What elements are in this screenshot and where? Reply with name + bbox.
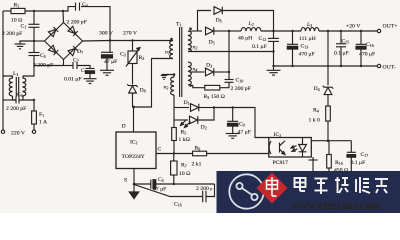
- zener diode D8: [129, 86, 137, 93]
- svg-text:www.elecfans.com: www.elecfans.com: [291, 200, 381, 212]
- capacitor C5: [33, 41, 35, 52]
- adjust arrows R5: [181, 120, 187, 126]
- svg-text:220 V: 220 V: [11, 131, 26, 137]
- svg-text:C5: C5: [158, 177, 164, 183]
- svg-text:2 200 pF: 2 200 pF: [67, 20, 87, 26]
- svg-text:n3: n3: [164, 85, 169, 91]
- svg-text:C5: C5: [40, 53, 46, 59]
- svg-text:0.1 μF: 0.1 μF: [334, 51, 349, 57]
- svg-text:n1: n1: [165, 50, 170, 56]
- diode D3 tap: [189, 71, 205, 73]
- svg-text:D6: D6: [216, 18, 222, 24]
- svg-text:2 200 p: 2 200 p: [196, 186, 212, 192]
- capacitor C13 electrolytic: [292, 31, 294, 44]
- capacitor C17: [350, 141, 352, 152]
- inductor L1 common-mode choke: [3, 76, 13, 78]
- svg-text:270 V: 270 V: [123, 31, 138, 37]
- svg-text:47 μF: 47 μF: [153, 187, 166, 193]
- svg-text:D3: D3: [206, 63, 212, 69]
- fuse F1: [32, 111, 37, 124]
- ground for C8: [84, 78, 97, 80]
- svg-text:IC1: IC1: [130, 140, 138, 146]
- capacitor C8: [86, 68, 95, 70]
- svg-text:T1: T1: [176, 22, 181, 28]
- svg-text:C12: C12: [259, 36, 267, 42]
- wire rectified rail: [229, 30, 241, 32]
- wire S diagonal: [134, 185, 202, 197]
- wire secondary top to D5: [188, 30, 202, 32]
- terminal 220V left: [1, 130, 4, 133]
- zener diode D4: [324, 88, 332, 95]
- resistor R5: [173, 120, 175, 128]
- capacitor C16 electrolytic: [360, 31, 362, 44]
- svg-text:OUT+: OUT+: [383, 24, 398, 30]
- capacitor C9 electrolytic: [232, 108, 234, 122]
- capacitor C7: [64, 65, 73, 67]
- svg-text:470 μF: 470 μF: [299, 52, 315, 58]
- ground for S pin: [133, 184, 135, 192]
- svg-text:OUT-: OUT-: [383, 65, 396, 71]
- bridge diode upper-right: [68, 26, 78, 36]
- svg-text:IC2: IC2: [274, 132, 282, 138]
- svg-text:10 Ω: 10 Ω: [11, 17, 22, 23]
- wire bridge bottom: [34, 60, 64, 66]
- capacitor C11 electrolytic: [134, 183, 151, 185]
- svg-text:C13: C13: [301, 44, 309, 50]
- terminal 220V right: [32, 130, 35, 133]
- wire top rail: [3, 10, 11, 12]
- resistor R4: [326, 106, 331, 121]
- IC2 PC817 box: [269, 138, 312, 158]
- svg-text:R5: R5: [181, 130, 187, 136]
- svg-text:+20 V: +20 V: [346, 24, 361, 30]
- ground for C1/C5 node: [20, 41, 34, 44]
- resistor R9: [193, 151, 207, 156]
- bridge diode upper-left: [48, 27, 58, 37]
- opto transistor: [269, 141, 271, 154]
- diode D5: [206, 27, 214, 35]
- svg-text:0.01 μF: 0.01 μF: [64, 77, 82, 83]
- capacitor C4 branch: [63, 7, 75, 11]
- ground for C9: [226, 133, 240, 135]
- svg-text:D4: D4: [314, 86, 320, 92]
- svg-text:L3: L3: [306, 22, 312, 28]
- svg-text:R3 150 Ω: R3 150 Ω: [204, 94, 225, 100]
- svg-text:L1: L1: [13, 71, 18, 77]
- svg-text:2 200 pF: 2 200 pF: [2, 31, 22, 37]
- wire snubber column: [228, 31, 230, 79]
- svg-text:2 200 pF: 2 200 pF: [6, 106, 26, 112]
- bridge rectifier diamond: [45, 23, 83, 60]
- wire n3 bottom to clamp diodes: [173, 95, 175, 120]
- transformer T1 core: [179, 27, 181, 97]
- svg-text:L2: L2: [248, 21, 254, 27]
- wire bridge left to C-node: [34, 40, 45, 42]
- svg-text:C: C: [158, 147, 162, 153]
- svg-text:47 μF: 47 μF: [104, 59, 117, 65]
- svg-text:C17: C17: [361, 152, 369, 158]
- capacitor C3 electrolytic: [109, 41, 111, 53]
- watermark red diamond logo: [257, 173, 288, 204]
- svg-text:D7: D7: [77, 49, 83, 55]
- svg-text:R10: R10: [335, 160, 343, 166]
- svg-text:C9: C9: [239, 122, 245, 128]
- svg-text:D8: D8: [140, 88, 146, 94]
- wire bias node: [214, 108, 269, 138]
- svg-text:R7: R7: [181, 163, 187, 169]
- svg-text:111 μH: 111 μH: [299, 36, 316, 42]
- capacitor C15: [340, 31, 342, 44]
- svg-text:PC817: PC817: [273, 160, 289, 166]
- terminal OUT+: [377, 29, 380, 32]
- svg-text:S: S: [124, 178, 127, 184]
- svg-text:C4: C4: [82, 2, 88, 8]
- secondary winding n2: [188, 31, 191, 52]
- svg-text:D5: D5: [209, 40, 215, 46]
- resistor R1: [11, 8, 25, 13]
- IC1 TOP224Y box: [116, 132, 156, 169]
- ground for n3: [163, 74, 165, 77]
- svg-text:C16: C16: [366, 42, 374, 48]
- watermark circle logo: [229, 174, 263, 208]
- wire drain node to IC1: [133, 107, 135, 132]
- svg-text:n2: n2: [193, 45, 198, 51]
- svg-text:C3: C3: [120, 52, 126, 58]
- svg-text:TOP224Y: TOP224Y: [122, 154, 145, 160]
- wire feedback column: [327, 31, 329, 85]
- diode D6: [214, 7, 222, 15]
- watermark band: [217, 171, 400, 213]
- opto LED: [302, 138, 304, 145]
- bias winding n3: [171, 77, 174, 95]
- wire D6 branch: [198, 11, 212, 32]
- svg-text:R4: R4: [313, 108, 319, 114]
- wire return to ground: [273, 66, 275, 70]
- terminal OUT-: [377, 64, 380, 67]
- svg-text:R9: R9: [195, 146, 201, 152]
- svg-text:R2: R2: [139, 55, 145, 61]
- svg-text:47 μF: 47 μF: [238, 130, 251, 136]
- svg-text:2 k1: 2 k1: [192, 162, 202, 168]
- svg-text:C15: C15: [342, 39, 350, 45]
- resistor R7: [173, 154, 175, 162]
- svg-text:C8: C8: [81, 68, 87, 74]
- secondary winding n4: [188, 62, 191, 85]
- wire OUT- rail: [274, 65, 378, 67]
- svg-text:C1: C1: [21, 24, 27, 30]
- clamp diode D1: [174, 107, 189, 109]
- svg-text:C16: C16: [174, 202, 182, 208]
- svg-text:0.1 μF: 0.1 μF: [252, 44, 267, 50]
- capacitor C10: [225, 79, 234, 81]
- wire center tap return: [188, 51, 274, 53]
- bridge diode lower-left: [48, 45, 58, 55]
- svg-text:2 200 pF: 2 200 pF: [33, 63, 53, 69]
- wire C pin row: [156, 153, 193, 155]
- watermark chinese title: [295, 177, 389, 194]
- resistor R3: [205, 85, 220, 90]
- wire DC plus rail: [83, 40, 174, 43]
- svg-text:D2: D2: [201, 125, 207, 131]
- wire LED cathode: [312, 157, 314, 160]
- capacitor C16b: [202, 191, 204, 203]
- svg-text:D: D: [122, 124, 126, 130]
- inductor L2: [241, 28, 261, 31]
- svg-text:1 k 0: 1 k 0: [309, 118, 321, 124]
- capacitor C6: [3, 99, 16, 101]
- clamp diode D2: [174, 119, 188, 121]
- svg-text:300 V: 300 V: [99, 31, 114, 37]
- resistor R10: [328, 141, 330, 155]
- ground for C3: [100, 69, 114, 71]
- wire bridge top feed: [62, 11, 65, 23]
- svg-text:1 kΩ: 1 kΩ: [179, 137, 190, 143]
- svg-text:2 200 pF: 2 200 pF: [231, 86, 251, 92]
- capacitor C1: [33, 11, 35, 24]
- capacitor C12: [273, 31, 275, 38]
- svg-text:10 Ω: 10 Ω: [179, 171, 190, 177]
- svg-text:1 A: 1 A: [39, 120, 48, 126]
- svg-text:C6: C6: [17, 92, 23, 98]
- svg-text:470 μF: 470 μF: [359, 52, 375, 58]
- varistor R2: [132, 41, 134, 52]
- svg-text:D1: D1: [184, 100, 190, 106]
- wire R4 junction row: [311, 140, 351, 142]
- bridge diode lower-right D7: [68, 46, 78, 56]
- ground for secondary return: [267, 69, 281, 71]
- wire left vertical line: [2, 11, 4, 130]
- svg-text:C7: C7: [73, 58, 79, 64]
- svg-text:R1: R1: [14, 2, 20, 8]
- svg-text:F1: F1: [39, 112, 44, 118]
- svg-text:48 μH: 48 μH: [238, 36, 252, 42]
- svg-text:C10: C10: [236, 78, 244, 84]
- primary winding n1: [170, 41, 173, 59]
- wire S pin: [133, 169, 135, 185]
- svg-text:n4: n4: [193, 67, 198, 73]
- svg-text:0.1 μF: 0.1 μF: [351, 160, 366, 166]
- wire drain link to primary: [134, 59, 174, 108]
- inductor L3: [301, 28, 319, 31]
